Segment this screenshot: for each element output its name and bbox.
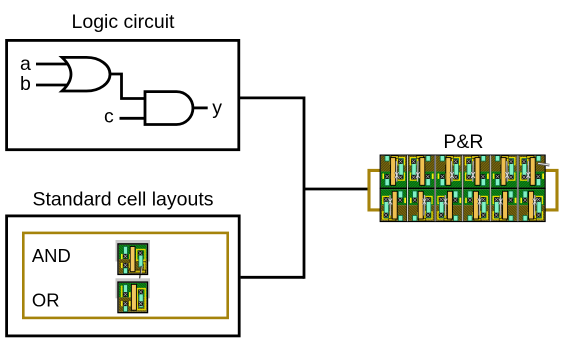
OR cell gray halo bbox=[116, 278, 151, 298]
AND gate bbox=[145, 92, 193, 125]
OR gate bbox=[62, 57, 110, 91]
routing stub top right bbox=[538, 164, 550, 166]
wire junction to P&R bbox=[304, 188, 368, 191]
vertical junction wire bbox=[303, 97, 306, 279]
svg-text:Logic circuit: Logic circuit bbox=[72, 11, 176, 33]
svg-text:P&R: P&R bbox=[443, 131, 483, 153]
logic circuit box bbox=[7, 40, 239, 149]
wire input a bbox=[36, 63, 72, 66]
P&R right power ring bracket bbox=[545, 170, 557, 210]
inner gold box bbox=[23, 233, 227, 318]
wire from standard cells box to junction bbox=[241, 276, 304, 279]
P&R cell array: bottom row bbox=[380, 189, 545, 222]
svg-text:OR: OR bbox=[32, 290, 60, 311]
wire output y bbox=[193, 107, 208, 110]
svg-text:Standard cell layouts: Standard cell layouts bbox=[32, 188, 213, 210]
column separation lines bbox=[408, 155, 518, 221]
wire input b bbox=[36, 84, 72, 87]
AND cell layout bbox=[118, 244, 148, 279]
svg-text:AND: AND bbox=[32, 245, 71, 266]
OR cell layout bbox=[118, 282, 148, 313]
wire OR output to AND input bbox=[108, 74, 145, 99]
wire input c bbox=[120, 117, 146, 120]
svg-text:y: y bbox=[212, 97, 222, 119]
P&R left power ring bracket bbox=[369, 170, 381, 210]
P&R cell array: top row (mirrored) bbox=[380, 155, 545, 188]
svg-text:a: a bbox=[20, 53, 31, 75]
svg-text:b: b bbox=[20, 73, 31, 95]
standard cell layouts box bbox=[7, 216, 240, 336]
AND cell gray halo bbox=[116, 240, 151, 262]
svg-text:c: c bbox=[104, 105, 114, 127]
wire from logic box to junction bbox=[240, 97, 304, 100]
